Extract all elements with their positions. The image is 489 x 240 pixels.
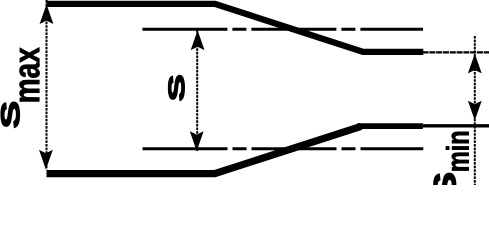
middle dimension line S (196, 30, 198, 151)
bottom-right extension line (thin solid) (423, 124, 489, 127)
lower chain center line (143, 147, 424, 150)
middle dimension arrow down (190, 131, 204, 151)
bottom profile outline: right horizontal segment (357, 123, 423, 129)
left dimension arrow up (40, 4, 54, 24)
bottom profile outline (thick tube wall): left horizontal and taper diagonal (47, 126, 362, 173)
left dimension arrow down (39, 150, 53, 170)
top-right extension line (dotted thin) (423, 51, 489, 53)
left dimension line Smax (46, 0, 48, 170)
label Smin subscript min (446, 132, 469, 171)
label Smin main S (434, 173, 456, 198)
right dimension line Smin (474, 36, 476, 185)
top profile outline (thick tube wall): left horizontal, taper, right horizontal (47, 4, 424, 52)
label middle S (169, 75, 185, 100)
right dimension arrow up (468, 54, 482, 74)
upper chain center line (142, 28, 423, 31)
right dimension arrow down (468, 101, 482, 121)
label Smax main S (1, 102, 19, 127)
middle dimension arrow up (191, 30, 205, 50)
label Smax subscript max (20, 47, 40, 101)
